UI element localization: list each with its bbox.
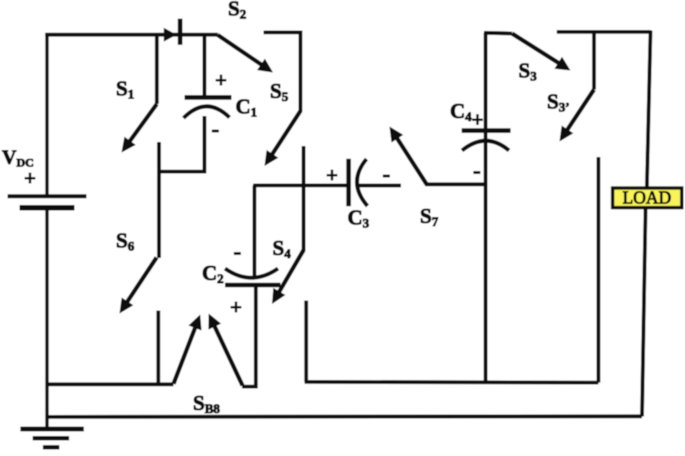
switch S4 xyxy=(272,250,304,304)
svg-text:-: - xyxy=(383,162,391,187)
wire S2 landing bracket xyxy=(264,32,301,112)
wire C4 node horizontal xyxy=(425,182,486,186)
wire battery bottom lead xyxy=(45,206,48,430)
wire bottom bus xyxy=(46,414,643,418)
diode xyxy=(164,19,180,45)
svg-text:LOAD: LOAD xyxy=(623,188,672,208)
switch S5 xyxy=(265,111,301,166)
wire S3p landing vertical xyxy=(597,157,601,383)
wire S6 landing vertical xyxy=(156,311,160,385)
wire left low horizontal xyxy=(46,382,174,386)
wire top right horizontal xyxy=(557,30,651,34)
wire S4 landing vertical xyxy=(304,301,308,383)
svg-text:+: + xyxy=(230,295,242,319)
wire right vertical top xyxy=(647,31,651,191)
svg-text:+: + xyxy=(215,68,227,92)
svg-text:-: - xyxy=(234,239,242,264)
load xyxy=(613,188,682,208)
wire bottom middle horizontal xyxy=(305,380,599,385)
switch S1 xyxy=(122,35,157,153)
wire C2 bottom lead xyxy=(242,285,256,387)
switch S7 xyxy=(390,127,427,185)
wire S4 branch vertical xyxy=(302,146,306,251)
battery VDC xyxy=(8,196,87,208)
wire C3 right xyxy=(356,184,401,188)
wire S3 stub xyxy=(484,31,512,36)
capacitor C3 xyxy=(349,159,368,206)
wire C2 top lead xyxy=(252,185,256,276)
capacitor C1 xyxy=(159,35,232,172)
wire battery top lead xyxy=(45,33,48,198)
svg-text:+: + xyxy=(472,108,484,132)
capacitor C2 xyxy=(225,269,281,286)
switch S2 xyxy=(218,35,273,73)
switch SB8 right arrow xyxy=(208,314,242,386)
ground xyxy=(20,429,83,447)
svg-text:+: + xyxy=(326,163,338,187)
switch S6 xyxy=(120,258,157,314)
svg-text:-: - xyxy=(473,158,481,183)
switch SB8 left arrow xyxy=(174,315,202,384)
wire node vertical S1 landing xyxy=(157,142,161,258)
svg-text:+: + xyxy=(24,166,36,190)
wire right vertical bottom xyxy=(642,206,646,417)
wire mid horizontal xyxy=(253,183,347,187)
capacitor C4 xyxy=(462,33,511,383)
svg-text:-: - xyxy=(212,117,220,142)
switch S3p xyxy=(560,32,595,142)
switch S3 xyxy=(512,34,571,71)
wire top left horizontal xyxy=(45,33,218,37)
